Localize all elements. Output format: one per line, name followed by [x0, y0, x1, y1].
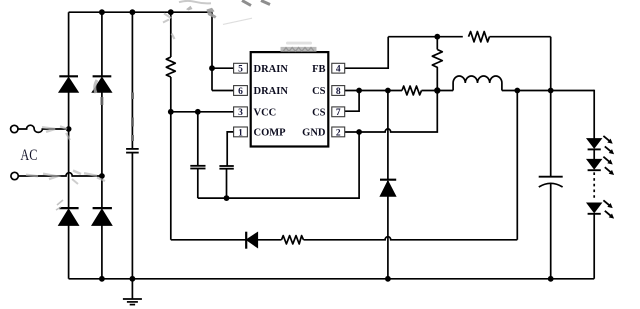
AC terminal T1: [11, 125, 18, 132]
wire pin6 DRAIN feed: [212, 90, 234, 92]
wire caps common to IC ground: [198, 132, 359, 198]
node CS / pin7 riser: [356, 88, 362, 94]
svg-text:COMP: COMP: [254, 128, 287, 139]
wire bottom bus: [69, 278, 595, 280]
svg-text:8: 8: [336, 87, 341, 97]
wire GND row with hop over freewheel line: [345, 91, 437, 133]
node bottom bus / ground: [130, 276, 136, 282]
node VCC / V4: [168, 109, 174, 115]
wire VCC dropper leg (V4) with resistor R1: [170, 12, 172, 57]
scan smudges top middle: [163, 1, 252, 39]
svg-text:6: 6: [238, 87, 243, 97]
diode D3 (bridge bottom-left): [59, 208, 79, 225]
resistor R1 (vertical, top-left): [166, 57, 175, 77]
U1 pin 6 box: [234, 86, 248, 97]
wire top rail drop to C4 (V10): [550, 37, 552, 177]
resistor R4 (top, horizontal): [469, 32, 490, 42]
svg-text:5: 5: [238, 65, 243, 75]
wire aux takeoff leg (V9): [516, 91, 518, 240]
svg-text:CS: CS: [312, 86, 326, 97]
node top bus / R1: [168, 9, 174, 15]
svg-text:AC: AC: [20, 146, 37, 164]
wire AC neutral with hop over V1: [18, 173, 102, 176]
LED string upper wire: [593, 90, 595, 139]
node freewheel / bottom bus: [385, 276, 391, 282]
svg-text:VCC: VCC: [254, 108, 277, 119]
node top bus / V2: [99, 9, 105, 15]
node VCC / C2: [195, 109, 201, 115]
resistor R2 (CS, horizontal): [402, 86, 422, 95]
U1 pin 3 box: [234, 107, 248, 118]
svg-text:1: 1: [238, 128, 243, 138]
op-amp U1 (controller IC body): [251, 52, 329, 146]
svg-text:GND: GND: [302, 128, 326, 139]
wire AC live with fuse squiggle: [18, 125, 69, 132]
node AC live / bridge: [66, 126, 72, 132]
wire FB to top rail: [345, 37, 388, 68]
node bottom bus / V2: [99, 276, 105, 282]
svg-text:FB: FB: [312, 64, 325, 75]
wire aux rail with hop over freewheel line: [171, 237, 518, 240]
capacitor C1 (input filter): [126, 149, 139, 153]
diode D1 (bridge top-left): [59, 76, 78, 92]
diode D6 (aux, pointing left): [246, 232, 257, 249]
scan smudges on AC wires: [26, 126, 105, 184]
wire input cap leg (V3): [131, 12, 133, 279]
LED light arrows: [603, 136, 614, 219]
svg-text:DRAIN: DRAIN: [254, 86, 289, 97]
scan smudge marks on V3: [100, 93, 134, 142]
svg-text:DRAIN: DRAIN: [254, 64, 289, 75]
U1 pin 7 box: [332, 107, 345, 118]
capacitor C3 (COMP): [219, 166, 233, 198]
svg-text:CS: CS: [312, 108, 326, 119]
U1 pin 1 box: [234, 127, 248, 138]
LED LED1: [587, 139, 601, 160]
svg-text:3: 3: [238, 108, 243, 118]
scan smudge near bridge diode D2: [95, 80, 97, 93]
wire freewheel branch (V8): [387, 91, 389, 279]
diode D4 (bridge bottom-right): [92, 208, 112, 225]
inductor L1: [453, 76, 502, 91]
resistor R3 (vertical, FB divider): [436, 37, 438, 50]
U1 pin 5 box: [234, 63, 248, 74]
U1 pin 2 box: [332, 127, 345, 138]
scan smudge near diode D3: [56, 200, 63, 210]
svg-text:2: 2: [336, 128, 341, 138]
wire pin5 DRAIN feed: [212, 12, 234, 90]
node GND / caps riser: [356, 129, 362, 135]
node AC neutral / bridge: [99, 173, 105, 179]
node CS / R3 / L1 / GND riser: [434, 87, 440, 93]
wire top rail (FB network): [388, 36, 463, 38]
svg-text:7: 7: [336, 108, 341, 118]
node C4 / bottom bus: [548, 276, 554, 282]
wire CS row: [345, 90, 402, 92]
node top rail / R3: [434, 34, 440, 40]
wire second bridge leg (V2): [101, 12, 103, 279]
capacitor C4 (output, polarized): [539, 177, 563, 279]
node output / aux takeoff: [514, 88, 520, 94]
wire COMP to C3: [227, 132, 233, 166]
U1 pin 4 box: [332, 63, 345, 74]
AC terminal T2: [11, 172, 18, 179]
node caps common: [224, 195, 230, 201]
erased part number smudge above U1: [281, 42, 317, 52]
svg-text:4: 4: [336, 65, 341, 75]
wire VCC rail: [171, 111, 234, 113]
wire L1 output row: [502, 90, 594, 92]
capacitor C2 (VCC): [190, 112, 205, 198]
diode D2 (bridge top-right): [92, 76, 111, 92]
LED LED2: [587, 159, 601, 170]
node output / C4: [548, 88, 554, 94]
diode D5 (freewheel, up): [380, 180, 396, 197]
wire left bridge leg (V1): [68, 12, 70, 279]
U1 pin 8 box: [332, 86, 345, 97]
LED LED3: [587, 203, 601, 279]
scan smudges dark chevrons top: [242, 1, 270, 6]
ground: [123, 279, 142, 305]
wire top bus: [69, 11, 212, 13]
node pin5 junction: [209, 65, 215, 71]
resistor R5 (aux, horizontal): [282, 236, 304, 244]
node CS / freewheel branch: [385, 88, 391, 94]
wire pin7 riser: [345, 91, 359, 112]
wire LED dashed section: [593, 172, 595, 200]
node top bus / C1: [130, 9, 136, 15]
